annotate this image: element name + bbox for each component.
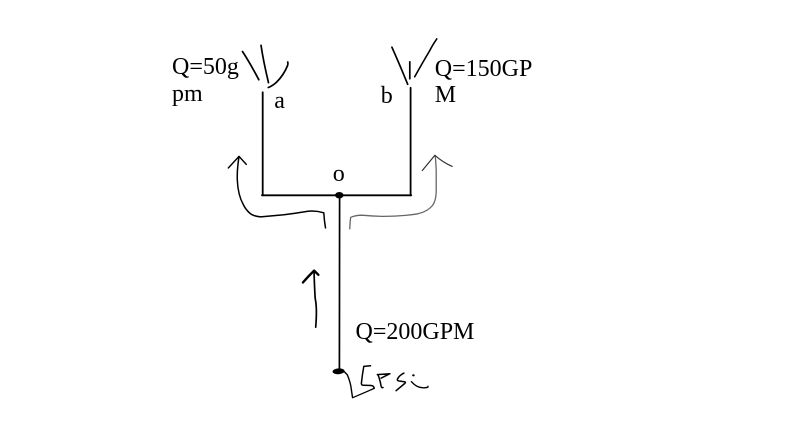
right flow arrow curve <box>350 156 436 229</box>
label Q=50gpm (line 1) <box>172 55 239 79</box>
left flow arrow curve <box>237 157 325 228</box>
node o junction dot <box>335 192 343 198</box>
node o label <box>333 162 345 186</box>
handwritten 15PSi: letter P <box>377 374 390 388</box>
handwritten 15PSi: digit 5 <box>361 366 374 389</box>
nozzle a spray stroke 3 <box>268 62 288 88</box>
handwritten 15PSi: letter i swoosh <box>411 382 428 388</box>
nozzle a spray stroke 1 <box>243 52 259 80</box>
node a label <box>274 89 285 113</box>
wire: horizontal header pipe <box>262 194 411 196</box>
left flow arrow head <box>228 156 246 168</box>
wire: supply riser pipe <box>338 195 340 369</box>
wire: left branch pipe a <box>262 92 264 195</box>
label Q=150GPM (line 2) <box>435 83 456 107</box>
handwritten 15PSi: letter S <box>396 373 405 391</box>
supply inlet blob (15 PSI point) <box>332 368 344 375</box>
node b label <box>381 84 393 108</box>
riser flow arrow head <box>303 271 319 283</box>
riser flow arrow shaft <box>314 271 316 328</box>
handwritten 15PSi: digit 1 <box>344 371 353 397</box>
handwritten 15PSi: tail stroke <box>353 388 375 397</box>
label Q=50gpm (line 2) <box>172 82 203 106</box>
right flow arrow head <box>422 155 452 170</box>
nozzle b spray stroke 3 <box>415 39 437 77</box>
nozzle b spray stroke 2 <box>409 62 411 79</box>
label Q=200GPM <box>356 320 475 344</box>
handwritten 15PSi: i dot <box>412 374 415 376</box>
wire: right branch pipe b <box>410 88 412 196</box>
nozzle b spray stroke 1 <box>392 47 408 84</box>
nozzle a spray stroke 2 <box>261 45 269 82</box>
label Q=150GPM (line 1) <box>435 57 533 81</box>
